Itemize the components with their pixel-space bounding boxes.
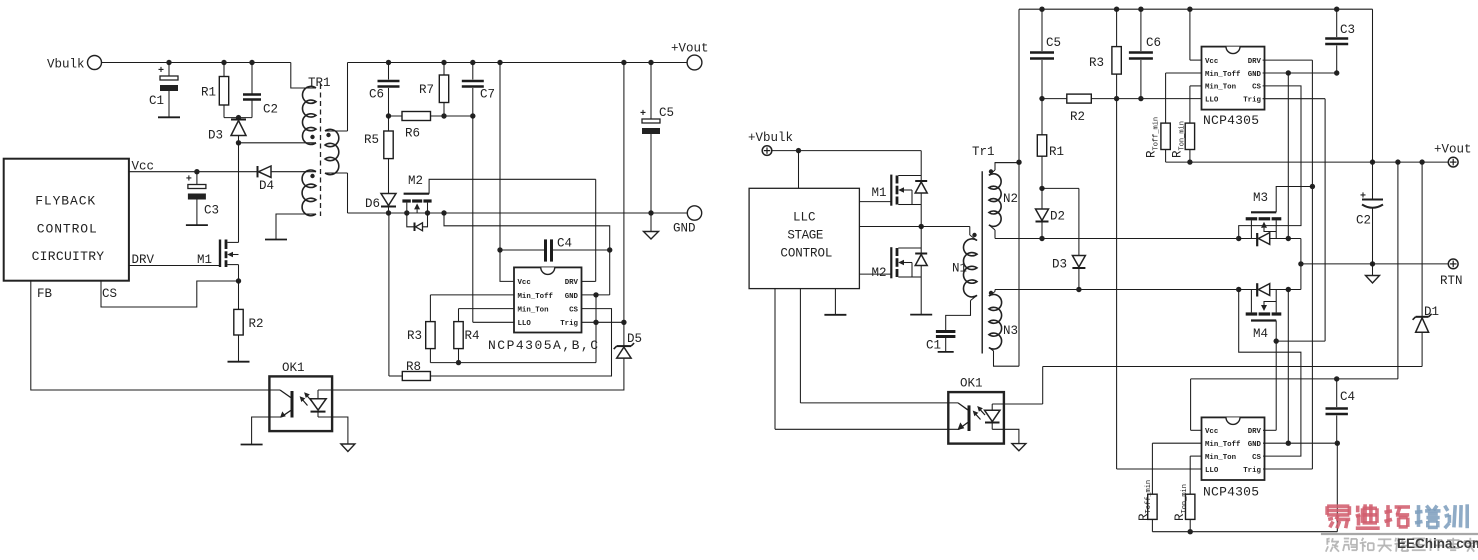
capacitor C5 (right) (1041, 9, 1043, 51)
wire Min_Toff pin (top IC) (1166, 72, 1202, 74)
wire CS sense path (101, 281, 239, 307)
wire center-tap vertical (1018, 9, 1020, 366)
svg-text:M1: M1 (197, 253, 212, 267)
wire Min_Toff pin line (430, 294, 514, 296)
svg-text:D4: D4 (259, 179, 274, 193)
wire M2 drain vertical (920, 227, 922, 254)
svg-text:GND: GND (1248, 441, 1262, 449)
svg-text:+Vbulk: +Vbulk (748, 131, 793, 145)
svg-text:Tr1: Tr1 (972, 145, 995, 159)
wire +Vout rail dots (386, 60, 391, 65)
diode D6 (381, 194, 396, 206)
svg-text:CS: CS (1252, 84, 1261, 92)
wire RTN line (1301, 263, 1448, 265)
svg-text:C6: C6 (1146, 36, 1161, 50)
svg-text:Vcc: Vcc (518, 279, 531, 287)
svg-text:Trig: Trig (1243, 467, 1261, 475)
wire D1 anode to opto line (1421, 332, 1423, 366)
node M4 drain dot (1236, 287, 1241, 292)
svg-text:CS: CS (1252, 454, 1261, 462)
svg-text:C5: C5 (1046, 36, 1061, 50)
wire DRV pin to M2 gate (582, 280, 596, 282)
wire R_Toff/R_Ton bottoms to +Vout (1166, 161, 1373, 163)
wire R3/R4 ground line (430, 362, 596, 364)
resistor R5 (388, 116, 390, 131)
op-amp U3 NCP4305 (bottom SR controller) (1202, 417, 1265, 480)
svg-text:D3: D3 (1052, 258, 1067, 272)
svg-text:C3: C3 (204, 204, 219, 218)
wire GND pin line (582, 294, 610, 296)
svg-text:DRV: DRV (1248, 428, 1262, 436)
wire LLC bottom pin to opto emitter (774, 289, 776, 430)
node switch junction (919, 224, 924, 229)
wire GND rail dots (386, 210, 391, 215)
wire N3 top to M4 drain (995, 289, 1239, 291)
svg-text:M1: M1 (872, 186, 887, 200)
resistor R_Toff_min (bottom) (1148, 494, 1157, 519)
wire vertical +Vout to C4 left (499, 63, 501, 251)
svg-text:+: + (158, 66, 164, 77)
watermark red characters (1327, 504, 1349, 508)
capacitor C4 (500, 249, 544, 251)
node GND terminal (687, 206, 701, 220)
capacitor C6 (right) (1140, 9, 1142, 51)
wire R1/C2 bottom join (224, 117, 252, 119)
svg-text:CS: CS (102, 287, 117, 301)
wire M1 source to node (238, 265, 240, 281)
svg-text:N3: N3 (1003, 324, 1018, 338)
winding N2 (995, 163, 1019, 170)
diode D1 (1421, 162, 1423, 317)
svg-text:Min_Toff: Min_Toff (1205, 71, 1241, 79)
wire M1 gate line (right) (859, 201, 891, 203)
body diode of M1 (right) (915, 180, 927, 182)
wire CS pin (bottom IC) to M4 drain (1239, 290, 1301, 457)
wire bottom ground bus (1152, 531, 1337, 533)
winding N1 polarity dot (972, 233, 976, 237)
resistor R1 (right) (1041, 99, 1043, 135)
resistor R4 (458, 309, 460, 322)
wire C4 left to Vcc pin (500, 250, 514, 281)
svg-text:NCP4305A,B,C: NCP4305A,B,C (488, 338, 598, 353)
resistor R2 (238, 281, 240, 309)
wire N1 bottom to C1 (971, 295, 978, 300)
svg-text:Min_Toff: Min_Toff (518, 293, 554, 301)
wire Trig pin (bottom IC) (1263, 468, 1312, 470)
capacitor C3 (right) (1336, 9, 1338, 37)
wire D4 to aux winding top (271, 171, 316, 173)
resistor R3 (429, 295, 431, 322)
svg-text:LLC: LLC (793, 211, 816, 225)
wire aux bottom to ground (276, 214, 316, 240)
svg-text:STAGE: STAGE (787, 229, 823, 243)
svg-text:Vcc: Vcc (1205, 58, 1218, 66)
svg-text:FB: FB (37, 287, 53, 301)
svg-text:C6: C6 (369, 88, 384, 102)
node M3 drain dot (1236, 236, 1241, 241)
node M1 source junction (236, 278, 241, 283)
node drain of M1 (junction) (236, 140, 241, 145)
wire M2 gate line (right) (859, 273, 891, 275)
svg-text:C1: C1 (926, 339, 941, 353)
wire switch node to N1 (969, 227, 971, 236)
wire top rail to +Vout (1372, 9, 1374, 162)
svg-text:Trig: Trig (560, 320, 578, 328)
capacitor C3 (196, 172, 198, 185)
wire LLO pin (bottom IC) (1117, 468, 1202, 470)
resistor R8 (402, 372, 430, 381)
svg-text:N2: N2 (1003, 192, 1018, 206)
transformer TR1 secondary winding (325, 129, 339, 174)
transformer TR1 primary polarity dot (310, 135, 314, 139)
ground (LLC control) (824, 314, 846, 316)
svg-text:Vcc: Vcc (1205, 428, 1218, 436)
transformer TR1 core (320, 84, 322, 216)
svg-text:DRV: DRV (132, 253, 155, 267)
winding N2 polarity dot (989, 169, 993, 173)
svg-text:N1: N1 (952, 262, 967, 276)
svg-text:C7: C7 (480, 88, 495, 102)
wire TR1 primary bottom to drain node (239, 142, 317, 144)
wire N2 top lead (995, 162, 1019, 164)
wire +Vbulk line (772, 150, 921, 152)
svg-text:M2: M2 (408, 174, 423, 188)
node RTN terminal (1448, 259, 1458, 269)
wire Min_Ton pin line (459, 308, 515, 310)
svg-text:Min_Toff: Min_Toff (1205, 441, 1241, 449)
wire Vbulk rail to TR1 primary top (291, 63, 316, 89)
wire DRV/Trig cross vertical (1311, 60, 1313, 469)
svg-text:Min_Ton: Min_Ton (518, 306, 549, 314)
body diode of M4 (1256, 283, 1258, 296)
svg-text:LLO: LLO (518, 320, 532, 328)
wire Vcc pin (top IC) (1190, 59, 1202, 61)
wire CS pin (top IC) to M3 drain (1239, 86, 1301, 239)
wire Vbulk rail (102, 62, 291, 64)
svg-text:R8: R8 (406, 360, 421, 374)
wire LLC to OK1 collector (800, 402, 958, 404)
wire top +Vout rail (1019, 8, 1373, 10)
transformer TR1 aux polarity dot (310, 174, 314, 178)
svg-text:NCP4305: NCP4305 (1203, 485, 1259, 500)
wire M3 source to RTN (1270, 238, 1301, 240)
svg-text:DRV: DRV (1248, 58, 1262, 66)
svg-text:R2: R2 (1070, 110, 1085, 124)
wire M4 source to RTN (1270, 289, 1301, 291)
svg-text:D1: D1 (1424, 305, 1439, 319)
svg-text:C1: C1 (149, 94, 164, 108)
node +Vout terminal (687, 55, 702, 70)
op-amp U1 NCP4305A,B,C (SR controller IC) (514, 267, 582, 332)
svg-text:GND: GND (565, 293, 579, 301)
svg-text:CS: CS (569, 306, 578, 314)
svg-text:R1: R1 (1049, 145, 1064, 159)
svg-text:EEChina.com: EEChina.com (1397, 536, 1478, 551)
svg-text:Vbulk: Vbulk (47, 58, 85, 72)
wire M1 source to switch node (920, 194, 922, 227)
capacitor C6 (388, 63, 390, 80)
wire C4 bottom to ground bus (1336, 443, 1338, 532)
svg-text:C3: C3 (1340, 23, 1355, 37)
svg-text:R7: R7 (419, 83, 434, 97)
svg-text:C2: C2 (263, 103, 278, 117)
transformer TR1 primary winding (302, 86, 316, 144)
wire GND pin (bottom IC) (1263, 442, 1337, 444)
watermark blue characters (1417, 505, 1421, 527)
resistor R7 (443, 63, 445, 76)
wire Vcc line (129, 171, 258, 173)
svg-text:R5: R5 (364, 133, 379, 147)
svg-text:+: + (1360, 192, 1366, 203)
diode D4 (257, 166, 259, 177)
body diode of M3 (1256, 233, 1258, 246)
diode D5 (zener) (617, 345, 631, 347)
resistor R2 (right) (1067, 94, 1092, 103)
svg-text:D2: D2 (1050, 210, 1065, 224)
wire +Vbulk to LLC box (798, 151, 800, 189)
svg-text:R3: R3 (407, 329, 422, 343)
wire junction dots on Vbulk rail (166, 60, 171, 65)
svg-text:CONTROL: CONTROL (37, 222, 97, 237)
capacitor C2 (251, 63, 253, 94)
wire CS pin to R8 (430, 309, 611, 376)
svg-text:LLO: LLO (1205, 96, 1219, 104)
wire C4 right to GND pin (609, 250, 611, 295)
wire Trig pin (top IC) to M4 gate (1263, 98, 1326, 100)
wire DRV pin (top IC) to M3 gate (1263, 59, 1313, 61)
svg-text:FLYBACK: FLYBACK (35, 193, 95, 208)
ground symbol (RTN) (1372, 264, 1374, 276)
svg-text:R3: R3 (1089, 56, 1104, 70)
ground (M2 source) (910, 314, 932, 316)
node R1/D2 junction (1039, 186, 1044, 191)
wire M1 drain vertical (238, 143, 240, 243)
wire +Vout to GND sense line (1397, 162, 1399, 379)
transformer TR1 auxiliary winding (302, 170, 316, 216)
capacitor C7 (472, 63, 474, 80)
wire M4 drain segment (1239, 289, 1258, 291)
svg-text:C5: C5 (659, 106, 674, 120)
svg-text:GND: GND (1248, 71, 1262, 79)
wire N3 bottom to center tap (989, 348, 1019, 367)
wire LLO bus (1042, 98, 1067, 100)
svg-text:R6: R6 (405, 127, 420, 141)
wire switch node line (859, 226, 969, 228)
svg-text:RTN: RTN (1440, 274, 1463, 288)
wire secondary bottom lead (325, 172, 348, 174)
svg-text:C4: C4 (557, 237, 572, 251)
wire R8 left to GND rail (388, 213, 390, 376)
resistor R3 (right) (1116, 9, 1118, 46)
body diode of M2 (right) (915, 253, 927, 255)
wire Min_Ton pin (top IC) (1190, 85, 1202, 87)
svg-text:Min_Ton: Min_Ton (1205, 84, 1236, 92)
svg-text:D5: D5 (627, 332, 642, 346)
resistor R_Toff_min (top) (1161, 123, 1170, 149)
svg-text:M2: M2 (872, 266, 887, 280)
wire opto anode riser (1042, 367, 1044, 405)
wire FB to optocoupler (31, 281, 280, 390)
svg-text:Min_Ton: Min_Ton (1205, 454, 1236, 462)
resistor R_Ton_min (bottom) (1186, 494, 1195, 519)
diode D3 (238, 118, 240, 120)
svg-text:D3: D3 (208, 129, 223, 143)
svg-text:R2: R2 (249, 317, 264, 331)
svg-text:+Vout: +Vout (1434, 143, 1472, 157)
capacitor C1 (168, 63, 170, 77)
resistor R6 (402, 112, 431, 121)
wire GND rail (348, 212, 688, 214)
wire GND-Trig tie (595, 295, 597, 322)
wire mid rail (389, 115, 473, 117)
capacitor C4 (right) (1336, 379, 1338, 407)
svg-text:LLO: LLO (1205, 467, 1219, 475)
wire +Vout rail to D5 (623, 63, 625, 347)
wire LLC bottom pin to opto collector (799, 289, 801, 403)
wire +Vout rail (secondary) (348, 62, 688, 64)
watermark underline (1321, 533, 1478, 535)
wire LLC ground pin (834, 289, 836, 315)
svg-text:M4: M4 (1253, 327, 1268, 341)
wire D5 anode to opto LED (318, 358, 624, 390)
capacitor C2 (right) (1372, 162, 1374, 199)
wire DRV pin (bottom IC) to M4 gate (1263, 429, 1276, 431)
svg-text:OK1: OK1 (960, 377, 983, 391)
wire Vcc pin (bottom IC) (1191, 429, 1202, 431)
body diode of M2 (407, 213, 414, 227)
wire Vcc (bottom IC) supply line (1191, 378, 1398, 380)
svg-text:GND: GND (673, 222, 696, 236)
block FLYBACK CONTROL CIRCUITRY (4, 159, 129, 281)
wire LLO pin line (473, 321, 514, 323)
diode D3 (1072, 256, 1085, 268)
node M3 source dot (1286, 236, 1291, 241)
resistor R_Ton_min (top) (1185, 123, 1194, 149)
block LLC STAGE CONTROL (749, 188, 859, 288)
wire GND pin (top IC) (1263, 72, 1337, 74)
wire M2 source node to C4 bus (444, 213, 610, 250)
wire Min_Ton pin (bottom IC) (1190, 455, 1201, 457)
op-amp U2 NCP4305 (top SR controller) (1202, 47, 1265, 110)
transformer Tr1 core (981, 171, 983, 353)
capacitor C1 (right) (936, 330, 956, 333)
watermark gray characters (1327, 538, 1330, 541)
svg-text:D6: D6 (365, 197, 380, 211)
svg-text:C2: C2 (1356, 214, 1371, 228)
node +Vout terminal (right) (1448, 157, 1458, 167)
svg-text:M3: M3 (1253, 191, 1268, 205)
wire GND (bottom IC) to M4 source (1287, 290, 1289, 444)
svg-text:Trig: Trig (1243, 96, 1261, 104)
wire Min_Toff pin (bottom IC) (1152, 442, 1201, 444)
wire D2 node to D3 (1042, 187, 1079, 189)
winding N1 (963, 239, 977, 297)
wire optocoupler anode line (1043, 366, 1422, 368)
wire M2 source to ground (920, 266, 922, 315)
transformer TR1 secondary polarity dot (326, 133, 330, 137)
svg-text:TR1: TR1 (308, 76, 331, 90)
wire GND (top IC) to M3 source (1287, 73, 1289, 239)
wire N2 bottom to M3 drain (989, 225, 995, 230)
svg-text:OK1: OK1 (282, 361, 305, 375)
wire M4 gate line (1276, 340, 1325, 342)
wire M1 drain vertical (920, 151, 922, 181)
svg-text:R4: R4 (465, 329, 480, 343)
svg-text:C4: C4 (1340, 390, 1355, 404)
ground (aux winding) (265, 239, 287, 241)
wire +Vout line (right) (1373, 161, 1449, 163)
svg-text:R1: R1 (201, 86, 216, 100)
winding N3 (994, 290, 996, 292)
wire Trig pin line (582, 321, 624, 323)
wire M2 gate to DRV (429, 179, 596, 193)
svg-text:+: + (640, 109, 646, 120)
wire vertical C7 to LLO (472, 116, 474, 322)
wire DRV gate line (129, 265, 219, 267)
capacitor C5 (650, 63, 652, 120)
node M4 source dot (1286, 287, 1291, 292)
svg-text:DRV: DRV (565, 279, 579, 287)
wire secondary top lead (325, 130, 348, 132)
resistor R1 (223, 63, 225, 77)
wire top rail dots (1039, 7, 1044, 12)
svg-text:+Vout: +Vout (671, 42, 709, 56)
svg-text:CIRCUITRY: CIRCUITRY (32, 249, 105, 264)
wire M3 drain segment (1239, 238, 1258, 240)
svg-text:NCP4305: NCP4305 (1203, 113, 1259, 128)
winding N3 polarity dot (989, 291, 993, 295)
ground symbol (GND rail) (650, 213, 652, 232)
diode D2 (1041, 188, 1043, 209)
svg-text:CONTROL: CONTROL (780, 246, 832, 260)
